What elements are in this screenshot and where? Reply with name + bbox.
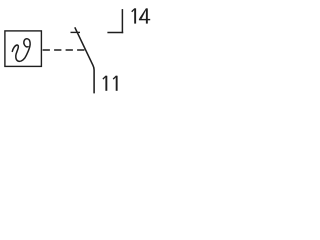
label 11 digit 1a	[102, 76, 107, 91]
label 14 digit 1	[131, 8, 136, 23]
theta symbol	[12, 39, 30, 62]
thermal element box B1	[5, 31, 42, 67]
label 14 digit 4	[139, 8, 150, 23]
switch lever	[75, 27, 94, 93]
background	[0, 0, 157, 99]
terminal 14 wire vertical	[121, 9, 123, 33]
dashed actuation link	[43, 49, 86, 51]
label 11 digit 1b	[113, 76, 118, 91]
terminal 14 wire horizontal	[107, 32, 123, 34]
lever tick	[71, 31, 81, 33]
